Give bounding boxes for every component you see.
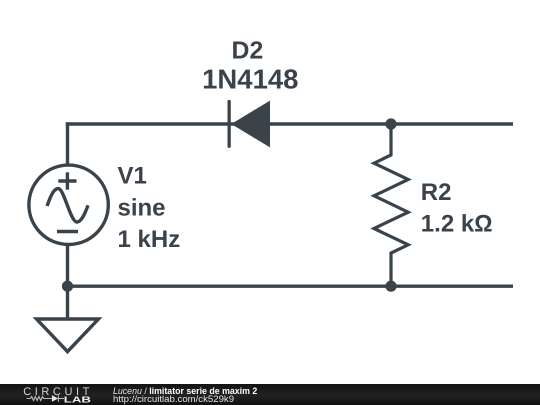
svg-text:R2: R2 — [421, 179, 452, 206]
svg-text:LAB: LAB — [64, 395, 91, 405]
svg-text:D2: D2 — [232, 38, 264, 65]
svg-text:sine: sine — [118, 195, 166, 222]
svg-text:1N4148: 1N4148 — [202, 63, 298, 94]
svg-text:1.2 kΩ: 1.2 kΩ — [421, 210, 493, 237]
svg-text:V1: V1 — [118, 162, 147, 189]
svg-text:1 kHz: 1 kHz — [118, 226, 181, 253]
